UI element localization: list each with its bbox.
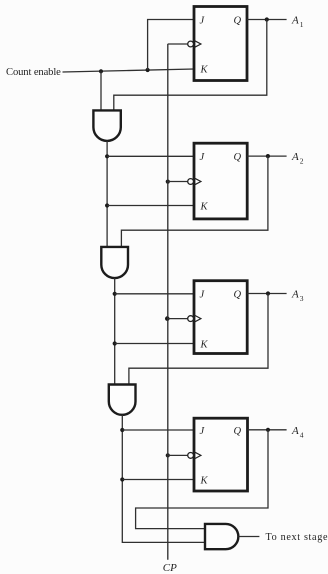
wire Q4 output: [248, 429, 287, 431]
node junction CP to FF3 clock: [165, 316, 170, 321]
node junction Q1: [265, 17, 269, 21]
svg-text:CP: CP: [163, 562, 177, 574]
wire J1 riser: [148, 20, 194, 71]
svg-text:K: K: [200, 65, 209, 76]
AND gate G1: [93, 110, 120, 140]
wire count enable horizontal to K1: [63, 69, 195, 72]
svg-text:Q: Q: [234, 426, 242, 437]
wire J2: [107, 155, 194, 157]
wire Q2 output: [247, 155, 286, 157]
node junction J3: [113, 292, 117, 296]
svg-text:To next stage: To next stage: [266, 532, 328, 543]
wire AND1 output chain: [106, 141, 108, 247]
clock wedge FF1: [194, 40, 201, 47]
wire Q2 feedback to AND2: [121, 156, 268, 247]
AND gate G4 carry (to next stage): [205, 524, 238, 549]
svg-text:A: A: [291, 425, 299, 437]
node junction K2: [105, 203, 109, 207]
svg-text:Q: Q: [234, 16, 242, 27]
svg-text:A: A: [291, 289, 299, 301]
svg-text:K: K: [200, 202, 209, 213]
clock wedge FF3: [194, 315, 201, 322]
wire K4: [122, 479, 194, 481]
node junction Q4: [266, 428, 270, 432]
wire K2: [107, 205, 194, 207]
clock bubble FF1: [188, 41, 194, 47]
svg-text:2: 2: [300, 157, 304, 166]
clock bubble FF2: [188, 179, 194, 185]
node junction J2: [105, 154, 109, 158]
wire Q4 feedback to carry gate: [136, 430, 268, 529]
wire AND2 output chain: [114, 278, 116, 385]
node junction Q3: [266, 291, 270, 295]
clock wedge FF4: [194, 452, 201, 459]
svg-text:Q: Q: [234, 290, 242, 301]
clock bubble FF3: [188, 316, 194, 322]
AND gate G3: [109, 385, 136, 415]
node junction CE to J1: [146, 68, 150, 72]
flip-flop FF1 box: [194, 7, 247, 81]
node junction CP to FF4 clock: [166, 453, 170, 457]
node junction K4: [120, 477, 124, 481]
wire FF3 clock stub: [168, 318, 188, 320]
node junction K3: [113, 341, 117, 345]
svg-text:1: 1: [300, 20, 304, 29]
node junction CE to AND1: [99, 69, 103, 73]
wire Q3 feedback to AND3: [129, 294, 268, 386]
wire J3: [115, 293, 194, 295]
svg-text:Count enable: Count enable: [6, 67, 61, 78]
wire FF2 clock stub: [168, 181, 188, 183]
wire FF4 clock stub: [168, 454, 188, 456]
wire carry gate output: [238, 536, 259, 538]
wire FF1 clock stub: [168, 43, 188, 45]
svg-text:K: K: [200, 340, 209, 351]
svg-text:A: A: [291, 15, 299, 27]
wire AND3 output chain to bottom gate: [122, 415, 205, 543]
flip-flop FF4 box: [194, 418, 248, 491]
svg-text:A: A: [291, 151, 299, 163]
wire Q1 output: [247, 19, 287, 21]
wire J4: [122, 429, 194, 431]
clock wedge FF2: [194, 178, 201, 185]
svg-text:4: 4: [300, 430, 304, 439]
node junction J4: [120, 428, 124, 432]
wire Q1 feedback to AND1: [114, 20, 267, 112]
wire AND1 left input: [100, 71, 102, 111]
node junction Q2: [266, 154, 270, 158]
wire Q3 output: [247, 293, 286, 295]
clock bubble FF4: [188, 453, 194, 459]
svg-text:Q: Q: [234, 152, 242, 163]
svg-text:3: 3: [300, 294, 304, 303]
flip-flop FF2 box: [194, 143, 247, 219]
flip-flop FF3 box: [194, 281, 247, 354]
node junction CP to FF2 clock: [166, 180, 170, 184]
wire CP vertical distribution line: [167, 44, 169, 560]
AND gate G2: [101, 247, 128, 278]
wire K3: [115, 343, 194, 345]
svg-text:K: K: [200, 476, 209, 487]
